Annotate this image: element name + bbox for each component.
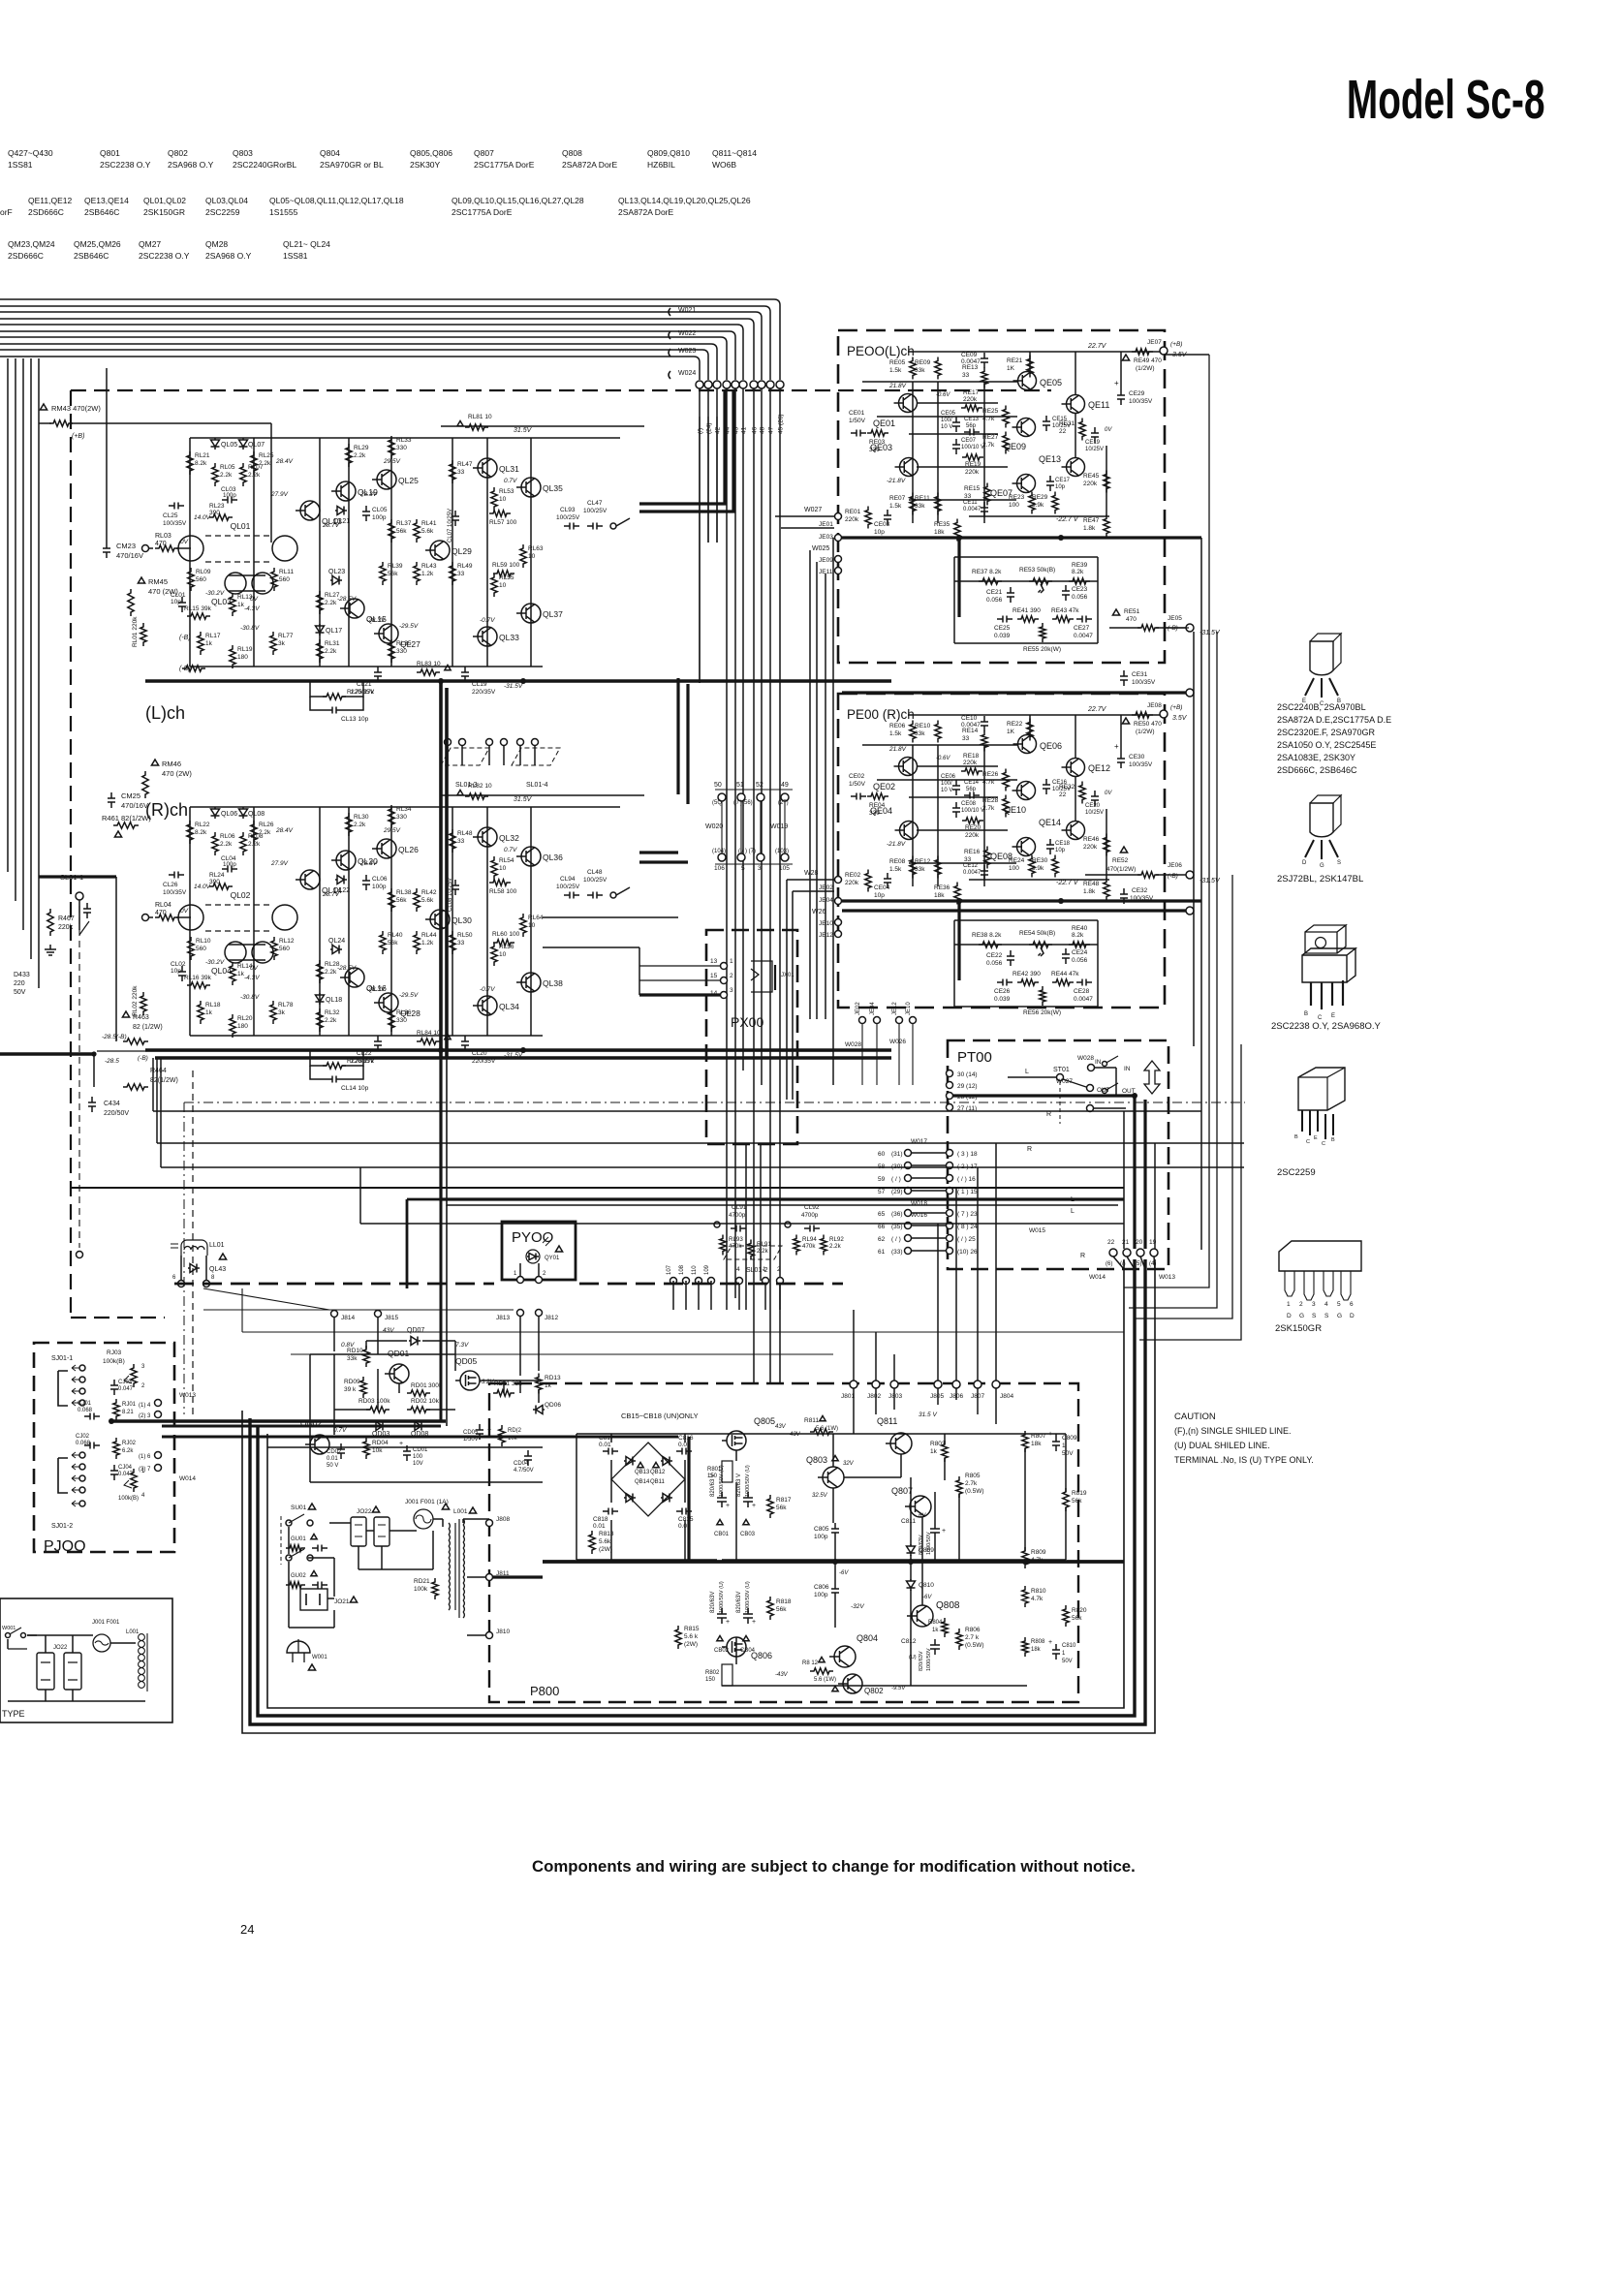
svg-text:33: 33 — [964, 493, 972, 500]
wire dashed bus — [174, 1283, 494, 1286]
node J815 — [375, 1311, 382, 1318]
svg-text:33k: 33k — [915, 730, 925, 737]
svg-text:2.2k: 2.2k — [220, 841, 233, 848]
svg-text:33: 33 — [457, 940, 465, 946]
resistor RE42 390 — [1017, 979, 1039, 985]
wire peoo rails — [862, 744, 1017, 746]
svg-text:560: 560 — [279, 576, 290, 583]
svg-text:Q806: Q806 — [751, 1651, 772, 1660]
svg-text:RD04: RD04 — [372, 1440, 389, 1446]
svg-text:RE13: RE13 — [962, 364, 979, 371]
capacitor CL02 10p — [178, 966, 186, 981]
svg-text:56p: 56p — [966, 787, 977, 792]
svg-text:RE48: RE48 — [1083, 881, 1100, 887]
svg-text:0.0047: 0.0047 — [1074, 633, 1093, 639]
svg-text:100/25V: 100/25V — [583, 508, 607, 514]
svg-text:+: + — [752, 1503, 756, 1509]
diode QD08 — [413, 1422, 424, 1431]
capacitor CL47 100/25V — [587, 523, 603, 530]
svg-text:220k: 220k — [965, 832, 980, 839]
wire SL01-1 drop dashed — [78, 906, 80, 1248]
svg-text:21: 21 — [1122, 1239, 1130, 1246]
capacitor CE10 0.0047 — [981, 716, 988, 731]
svg-text:QL35: QL35 — [543, 483, 563, 493]
svg-text:RE29: RE29 — [1032, 494, 1048, 501]
resistor RE15 33 — [984, 483, 990, 506]
resistor RM43 470(2W) — [40, 404, 47, 410]
resistor RE29 3.9k — [1052, 492, 1058, 514]
transistor QE09 — [1017, 419, 1036, 437]
svg-text:RE02: RE02 — [845, 872, 861, 879]
svg-text:8.2k: 8.2k — [1072, 932, 1084, 939]
svg-text:3.9k: 3.9k — [1032, 502, 1044, 509]
svg-text:470/16V: 470/16V — [116, 551, 143, 560]
capacitor CE09 0.0047 — [981, 353, 988, 368]
resistor RE25 4.7k — [1003, 406, 1009, 428]
transistor QE02 — [899, 758, 918, 776]
capacitor CE07 100/10V — [952, 439, 960, 454]
resistor RE44 47k — [1052, 979, 1074, 985]
svg-text:-30.8V: -30.8V — [240, 625, 260, 632]
svg-text:5.6 k: 5.6 k — [684, 1633, 699, 1640]
svg-text:6.2k: 6.2k — [122, 1448, 134, 1454]
board outline P800 — [489, 1383, 1078, 1702]
transistor QL28 — [379, 993, 398, 1012]
capacitor CE21 0.056 — [1007, 587, 1014, 603]
svg-text:D: D — [1350, 1313, 1355, 1319]
svg-text:Q811~Q814: Q811~Q814 — [712, 148, 757, 158]
svg-text:10p: 10p — [1055, 848, 1066, 853]
node PX00 pin2 — [721, 977, 728, 984]
resistor RL07 2.2k — [240, 463, 246, 486]
svg-text:RE10: RE10 — [915, 723, 931, 729]
svg-text:(104): (104) — [712, 849, 726, 854]
svg-text:61: 61 — [878, 1249, 886, 1256]
svg-text:SL01-3: SL01-3 — [455, 782, 478, 789]
resistor RE23 100 — [1029, 492, 1035, 514]
transistor QL31 — [478, 458, 497, 478]
resistor RL33 330 — [389, 436, 394, 459]
svg-text:33: 33 — [457, 838, 465, 845]
svg-text:-21.8V: -21.8V — [887, 478, 906, 484]
svg-text:150: 150 — [707, 1474, 718, 1479]
LED QY01 — [526, 1250, 540, 1263]
svg-text:(+B): (+B) — [72, 433, 84, 440]
svg-text:CL25: CL25 — [163, 512, 178, 519]
svg-text:CE14: CE14 — [964, 780, 980, 786]
svg-text:CL48: CL48 — [587, 869, 603, 876]
svg-text:G: G — [1299, 1313, 1304, 1319]
svg-text:RL31: RL31 — [325, 640, 340, 647]
svg-text:RM43 470(2W): RM43 470(2W) — [51, 404, 101, 413]
svg-text:J813: J813 — [496, 1315, 510, 1321]
svg-text:C434: C434 — [104, 1101, 120, 1107]
svg-text:2SD666C, 2SB646C: 2SD666C, 2SB646C — [1277, 765, 1357, 775]
wire top rail — [190, 437, 620, 439]
svg-text:Q805: Q805 — [754, 1416, 775, 1426]
svg-text:470k: 470k — [802, 1243, 816, 1250]
svg-text:J804: J804 — [1000, 1393, 1013, 1400]
resistor RL27 2.2k — [317, 591, 323, 614]
svg-text:RL54: RL54 — [499, 857, 514, 864]
transistor QL20 — [336, 851, 356, 870]
svg-text:W028: W028 — [1077, 1055, 1094, 1062]
capacitor CE12 0.0047 — [981, 865, 988, 881]
svg-text:0.056: 0.056 — [1072, 594, 1088, 601]
svg-text:IN: IN — [1124, 1066, 1131, 1072]
svg-text:31.5V: 31.5V — [514, 427, 533, 434]
svg-text:+: + — [1114, 742, 1119, 751]
svg-text:82 (1/2W): 82 (1/2W) — [133, 1024, 163, 1031]
node PJ00 out pins — [155, 1400, 162, 1407]
svg-text:2SA872A D.E,2SC1775A D.E: 2SA872A D.E,2SC1775A D.E — [1277, 715, 1391, 725]
svg-text:RL05: RL05 — [220, 464, 235, 471]
capacitor CL01 10p — [178, 597, 186, 612]
svg-text:RL38: RL38 — [396, 889, 412, 896]
svg-text:QL43: QL43 — [209, 1266, 226, 1273]
capacitor CE29 100/35V — [1117, 389, 1125, 405]
svg-text:56k: 56k — [776, 1606, 787, 1613]
svg-text:0.01: 0.01 — [327, 1456, 338, 1462]
svg-text:0.01: 0.01 — [599, 1442, 611, 1448]
capacitor C815 0.01 — [676, 1508, 692, 1515]
svg-text:1.5k: 1.5k — [889, 367, 902, 374]
svg-text:R: R — [1027, 1146, 1032, 1153]
wire QD mesh — [333, 1354, 335, 1435]
svg-text:20: 20 — [1136, 1239, 1143, 1246]
svg-text:RE14: RE14 — [962, 728, 979, 734]
transistor QE08 — [1017, 838, 1036, 856]
svg-text:TERMINAL .No, IS (U) TYPE ONL: TERMINAL .No, IS (U) TYPE ONLY. — [1174, 1455, 1314, 1465]
resistor RD13 1k — [536, 1374, 542, 1394]
board outline PJ00 — [34, 1343, 174, 1552]
svg-text:RL32: RL32 — [325, 1009, 340, 1016]
node input IN-L — [142, 545, 149, 552]
svg-text:2SA1083E, 2SK30Y: 2SA1083E, 2SK30Y — [1277, 753, 1355, 762]
resistor RL44 1.2k — [414, 931, 420, 954]
svg-text:CL14 10p: CL14 10p — [341, 1085, 369, 1092]
svg-text:W015: W015 — [1029, 1227, 1045, 1234]
resistor RL28 2.2k — [317, 960, 323, 983]
resistor RJ02 8.2k — [113, 1438, 119, 1459]
svg-text:QL05~QL08,QL11,QL12,QL17,QL18: QL05~QL08,QL11,QL12,QL17,QL18 — [269, 196, 404, 205]
svg-text:RL10: RL10 — [196, 938, 211, 945]
node PX00 pin3 — [721, 992, 728, 999]
svg-text:G: G — [1320, 863, 1324, 869]
svg-text:CE17: CE17 — [1055, 478, 1071, 483]
svg-text:QL31: QL31 — [499, 464, 519, 474]
svg-text:QM28: QM28 — [205, 239, 228, 249]
svg-text:QL17: QL17 — [326, 628, 342, 635]
svg-text:CL94: CL94 — [560, 876, 576, 883]
svg-text:-30.8V: -30.8V — [240, 994, 260, 1001]
wire top bus lines — [0, 299, 780, 380]
svg-text:2.2k: 2.2k — [354, 452, 366, 459]
transistor Q806 fet — [727, 1637, 746, 1657]
svg-text:28.7V: 28.7V — [322, 522, 340, 529]
node J808 — [486, 1520, 493, 1527]
svg-text:-30.2V: -30.2V — [205, 959, 225, 966]
wire run A — [155, 1056, 891, 1060]
svg-text:-32V: -32V — [851, 1603, 864, 1610]
svg-text:JE09: JE09 — [819, 557, 833, 564]
wire PJ00 thick out — [111, 1419, 446, 1422]
capacitor CD01 100 10V — [403, 1445, 411, 1461]
svg-text:RL02 220k: RL02 220k — [132, 985, 139, 1016]
svg-text:100p: 100p — [372, 884, 387, 890]
wire thick feeder A — [708, 417, 717, 543]
svg-text:RL77: RL77 — [278, 633, 294, 639]
svg-text:0.01: 0.01 — [593, 1523, 606, 1530]
resistor RE18 220k — [961, 768, 982, 774]
transistor QL27 — [379, 624, 398, 643]
svg-text:CB03: CB03 — [740, 1532, 756, 1537]
resistor RL41 5.6k — [414, 519, 420, 543]
resistor R463 82(1/2W) — [122, 1011, 129, 1017]
wire bus drop joins — [672, 1281, 674, 1310]
svg-text:0.039: 0.039 — [994, 996, 1011, 1003]
svg-text:RE09: RE09 — [915, 359, 931, 366]
svg-text:22: 22 — [1107, 1239, 1115, 1246]
svg-text:JE05: JE05 — [1168, 615, 1182, 622]
svg-text:(-B): (-B) — [179, 635, 191, 641]
resistor R815 5.6k(2W) — [675, 1626, 681, 1649]
capacitor CL13 10p — [327, 707, 342, 714]
svg-text:1000/50V: 1000/50V — [926, 1648, 932, 1671]
resistor RL22 8.2k — [187, 821, 193, 844]
capacitor CL04 100p — [222, 866, 237, 873]
svg-text:QL30: QL30 — [452, 915, 472, 925]
svg-text:RL40: RL40 — [388, 932, 403, 939]
capacitor CL08 10/25V — [452, 880, 459, 895]
svg-text:W001: W001 — [2, 1626, 16, 1631]
resistor RL91 2.2k — [748, 1240, 754, 1260]
svg-text:2.2k: 2.2k — [259, 829, 271, 836]
svg-text:2.2k: 2.2k — [325, 1017, 337, 1024]
svg-text:100/35V: 100/35V — [163, 520, 187, 527]
resistor RL32 2.2k — [317, 1008, 323, 1032]
svg-text:RL14: RL14 — [237, 963, 253, 970]
svg-text:Q802: Q802 — [168, 148, 188, 158]
switch W001b — [8, 1628, 27, 1649]
svg-text:2.2k: 2.2k — [354, 822, 366, 828]
resistor RE36 18k — [954, 883, 960, 905]
svg-text:RL84 10: RL84 10 — [417, 1030, 441, 1037]
svg-text:CE02: CE02 — [849, 773, 865, 780]
svg-text:100/35V: 100/35V — [1129, 398, 1153, 405]
board outline dashed left — [71, 390, 165, 1318]
resistor RE48 1.8k — [1104, 879, 1109, 901]
svg-text:109: 109 — [704, 1264, 710, 1275]
resistor RL25 2.2k — [251, 451, 257, 475]
svg-text:15: 15 — [710, 973, 718, 979]
svg-text:22.7V: 22.7V — [1087, 706, 1107, 713]
capacitor C817 0.01 — [603, 1448, 618, 1455]
svg-text:R815: R815 — [684, 1626, 700, 1632]
svg-text:(U): (U) — [909, 1655, 917, 1660]
svg-text:33k: 33k — [915, 866, 925, 873]
svg-text:PT00: PT00 — [957, 1049, 992, 1066]
svg-text:100/35V: 100/35V — [1130, 895, 1154, 902]
svg-text:RL81 10: RL81 10 — [468, 414, 492, 420]
svg-text:RL01 220k: RL01 220k — [132, 616, 139, 647]
svg-text:GU01: GU01 — [291, 1536, 306, 1542]
svg-text:51: 51 — [736, 782, 744, 789]
capacitor C806 100p — [831, 1583, 839, 1598]
svg-text:J001 F001: J001 F001 — [92, 1620, 120, 1626]
resistor RL55 10 — [491, 574, 497, 597]
svg-text:CE12: CE12 — [963, 863, 979, 869]
capacitor CL22 220/35V — [374, 1036, 382, 1051]
svg-text:3: 3 — [758, 865, 762, 872]
svg-text:56k: 56k — [776, 1505, 787, 1511]
svg-text:(R)ch: (R)ch — [145, 800, 188, 820]
svg-text:220k: 220k — [1083, 481, 1098, 487]
svg-text:28.7V: 28.7V — [322, 891, 340, 898]
svg-text:RE16: RE16 — [964, 849, 981, 855]
svg-text:39 k: 39 k — [344, 1386, 357, 1393]
svg-text:TYPE: TYPE — [2, 1709, 25, 1719]
wire PY00 frame — [407, 1199, 576, 1288]
wire thick L-R junction — [441, 1058, 1124, 1199]
svg-text:JE08: JE08 — [1147, 702, 1162, 709]
transistor QE01 — [899, 394, 918, 413]
resistor RE35 18k — [954, 519, 960, 542]
svg-text:60: 60 — [878, 1151, 886, 1158]
svg-text:2SC2240GRorBL: 2SC2240GRorBL — [233, 160, 296, 170]
wire run E thick — [70, 1187, 1124, 1189]
svg-text:orF: orF — [0, 207, 13, 217]
capacitor CD02 0.01 50V — [337, 1443, 345, 1459]
capacitor CL03 100p — [222, 497, 237, 504]
svg-text:RE28: RE28 — [982, 797, 999, 804]
wire thick feed bold — [639, 389, 733, 512]
svg-text:Q804: Q804 — [320, 148, 340, 158]
svg-text:PEOO(L)ch: PEOO(L)ch — [847, 344, 915, 358]
capacitor CE11 0.0047 — [981, 502, 988, 517]
svg-text:R818: R818 — [776, 1598, 792, 1605]
svg-text:RL17: RL17 — [205, 633, 221, 639]
wire long diagonals — [203, 1288, 1124, 1354]
svg-text:0.039: 0.039 — [994, 633, 1011, 639]
svg-text:1000/50V (U): 1000/50V (U) — [745, 1465, 751, 1497]
svg-text:10/25V: 10/25V — [1085, 810, 1104, 816]
svg-text:R: R — [1046, 1111, 1051, 1118]
wire mains — [329, 1522, 351, 1524]
svg-text:Q801: Q801 — [100, 148, 120, 158]
connector pins 22-19 — [1109, 1249, 1117, 1257]
svg-text:QD06: QD06 — [545, 1402, 561, 1409]
svg-text:13: 13 — [710, 958, 718, 965]
svg-text:43V: 43V — [383, 1327, 394, 1334]
resistor RL58 100 — [489, 880, 511, 885]
wire column drops — [189, 807, 191, 1036]
svg-text:RL19: RL19 — [237, 646, 253, 653]
svg-text:1.5k: 1.5k — [889, 503, 902, 510]
resistor RD10 33k — [363, 1346, 369, 1367]
resistor RM45 470(2W) — [138, 577, 144, 583]
svg-text:560: 560 — [196, 576, 206, 583]
capacitor CE24 0.056 — [1062, 948, 1070, 964]
resistor RE52 470(1/2W) — [1120, 847, 1127, 853]
resistor RE37 8.2k — [979, 578, 1002, 584]
svg-text:2SA968 O.Y: 2SA968 O.Y — [168, 160, 214, 170]
svg-text:2.7k: 2.7k — [965, 1480, 978, 1487]
svg-text:50V: 50V — [1062, 1450, 1074, 1457]
svg-text:2SJ72BL, 2SK147BL: 2SJ72BL, 2SK147BL — [1277, 874, 1363, 884]
svg-text:QB13: QB13 — [635, 1470, 650, 1475]
svg-text:QL06: QL06 — [221, 811, 237, 818]
svg-text:HZ6BIL: HZ6BIL — [647, 160, 675, 170]
svg-text:CL26: CL26 — [163, 882, 178, 888]
transistor QL37 — [521, 604, 541, 623]
svg-text:(29): (29) — [891, 1189, 903, 1195]
svg-text:1K: 1K — [1007, 729, 1015, 735]
capacitor CL06 100p — [362, 875, 370, 890]
svg-text:22.7V: 22.7V — [1087, 343, 1107, 350]
svg-text:-6V: -6V — [839, 1570, 849, 1576]
svg-text:2SC2238 O.Y: 2SC2238 O.Y — [100, 160, 151, 170]
wire run C — [157, 1142, 1244, 1144]
capacitor CB02 820/63V — [717, 1608, 727, 1624]
svg-text:100: 100 — [413, 1454, 423, 1460]
svg-text:JO22: JO22 — [357, 1508, 372, 1515]
resistor RL36 330 — [389, 1008, 394, 1032]
svg-text:220: 220 — [14, 980, 25, 987]
resistor RL82 10 — [465, 793, 488, 799]
svg-text:+: + — [1114, 379, 1119, 388]
svg-text:+: + — [399, 1441, 403, 1447]
capacitor C805 100p — [831, 1523, 839, 1538]
svg-text:RL53: RL53 — [499, 488, 514, 495]
svg-text:CE05: CE05 — [941, 411, 956, 417]
svg-text:56p: 56p — [966, 423, 977, 429]
svg-text:Q802: Q802 — [864, 1687, 884, 1695]
switch SL01-4 — [517, 739, 524, 746]
resistor R813 5.6k(2W) — [589, 1531, 595, 1554]
svg-text:CD02: CD02 — [327, 1449, 342, 1455]
svg-text:-21.8V: -21.8V — [887, 841, 906, 848]
svg-text:2.2k: 2.2k — [325, 600, 337, 606]
wire input to gate — [176, 916, 191, 918]
svg-text:JE06: JE06 — [1168, 862, 1182, 869]
svg-text:-0.7V: -0.7V — [480, 986, 495, 993]
svg-text:56k: 56k — [396, 528, 407, 535]
svg-text:5.6k: 5.6k — [421, 897, 434, 904]
svg-text:32.5V: 32.5V — [812, 1493, 828, 1499]
svg-text:470/16V: 470/16V — [121, 801, 148, 810]
svg-text:10: 10 — [499, 865, 507, 872]
svg-text:RL30: RL30 — [354, 814, 369, 821]
svg-text:CD04: CD04 — [514, 1461, 529, 1467]
svg-text:RE07: RE07 — [889, 495, 906, 502]
svg-text:CE20: CE20 — [1085, 803, 1101, 809]
svg-text:(+B): (+B) — [1170, 704, 1182, 711]
svg-text:JE04: JE04 — [870, 1002, 876, 1015]
svg-text:1000/50V (U): 1000/50V (U) — [719, 1581, 725, 1613]
svg-text:Model Sc-8: Model Sc-8 — [1347, 70, 1545, 131]
svg-text:2.2k: 2.2k — [325, 648, 337, 655]
svg-text:RE43 47k: RE43 47k — [1051, 607, 1079, 614]
svg-text:RE56 20k(W): RE56 20k(W) — [1023, 1009, 1061, 1016]
resistor RL49 33 — [450, 562, 455, 585]
resistor RL56 10 — [491, 943, 497, 966]
svg-text:65: 65 — [878, 1211, 886, 1218]
capacitor CE16 10/25V — [1043, 779, 1050, 794]
resistor RL35 330 — [389, 639, 394, 663]
svg-text:1k: 1k — [205, 640, 213, 647]
svg-text:56k: 56k — [388, 940, 398, 946]
